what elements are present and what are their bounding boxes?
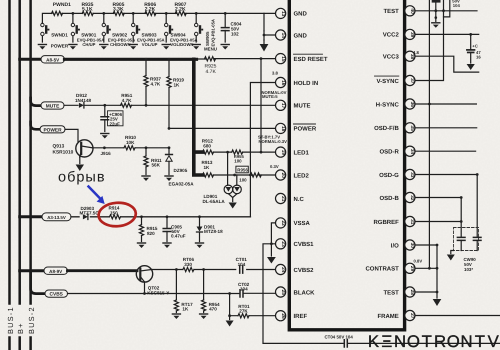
svg-text:16: 16 [280, 80, 286, 86]
pin 16 HOLD IN [272, 71, 318, 88]
diode D901 MTZ8-18 vertical [196, 215, 224, 248]
svg-text:103*: 103* [464, 267, 473, 272]
wire pin40 TEST net [415, 10, 477, 12]
svg-text:104: 104 [238, 262, 246, 267]
node CVBS stadium [45, 290, 68, 298]
wire pin34 OSD-R [415, 150, 476, 152]
wire RT01 branch [226, 292, 276, 326]
wire pin30 I/O [415, 244, 437, 246]
resistor R911 56K vertical [142, 146, 162, 181]
svg-text:33: 33 [409, 172, 415, 178]
svg-text:27: 27 [409, 313, 415, 319]
svg-text:KSC815-Y: KSC815-Y [147, 290, 169, 295]
svg-text:40: 40 [409, 8, 415, 14]
svg-text:EGA02-05A: EGA02-05A [169, 182, 195, 187]
svg-text:N: N [394, 332, 406, 350]
svg-text:CH/DOWN: CH/DOWN [110, 42, 130, 47]
svg-text:VOL/DOWN: VOL/DOWN [170, 42, 193, 47]
pin 35 OSD-F/B [374, 123, 415, 133]
wire pin36 H-SYNC [415, 103, 476, 105]
svg-text:DZ905: DZ905 [174, 168, 188, 173]
svg-text:PWND1: PWND1 [53, 2, 71, 8]
svg-text:LED1: LED1 [294, 149, 310, 156]
node MUTE stadium [41, 102, 64, 110]
svg-text:VCC2: VCC2 [383, 32, 400, 39]
pin 26 IREF [276, 311, 308, 321]
svg-text:36: 36 [409, 102, 415, 108]
wire A8-5V rail bold [65, 58, 197, 61]
resistor R905 3.3K [113, 11, 124, 15]
svg-text:28: 28 [409, 290, 415, 296]
resistor R925 4.7K [205, 57, 216, 61]
capacitor C906 22uF [101, 104, 123, 139]
svg-text:MTZ8-18: MTZ8-18 [204, 229, 223, 234]
pin 14 GND [276, 30, 308, 40]
pin 13 GND [276, 8, 308, 18]
svg-text:NORMAL:0.3V: NORMAL:0.3V [259, 139, 288, 144]
svg-text:J916: J916 [101, 151, 112, 156]
svg-text:RGBREF: RGBREF [373, 219, 399, 226]
svg-text:CVBS: CVBS [50, 292, 64, 298]
pin 40 TEST [383, 6, 415, 16]
svg-text:TEST: TEST [383, 8, 399, 15]
svg-text:18: 18 [280, 126, 286, 132]
svg-text:POWER: POWER [43, 127, 62, 133]
wire MUTE line to pin 17 [64, 104, 276, 106]
svg-text:OSD-F/B: OSD-F/B [374, 125, 399, 132]
resistor R919 1K vertical [167, 58, 185, 129]
svg-text:EVQ-PB1-05A: EVQ-PB1-05A [211, 19, 216, 46]
svg-text:104: 104 [240, 286, 248, 291]
svg-text:CT04 50V 104: CT04 50V 104 [325, 334, 354, 339]
svg-text:3.3K: 3.3K [113, 7, 124, 13]
svg-text:HOLD IN: HOLD IN [294, 80, 319, 87]
svg-text:KSR1010: KSR1010 [53, 149, 74, 155]
switch SW901 CH/UP [69, 13, 104, 49]
pin 15 ESD RESET [276, 54, 328, 64]
capacitor second bypass L-wire [444, 0, 450, 17]
svg-text:обрыв: обрыв [58, 170, 106, 186]
node POWER stadium [40, 126, 65, 134]
svg-text:27K: 27K [239, 308, 248, 313]
svg-text:25: 25 [280, 290, 286, 296]
svg-text:SW905: SW905 [205, 31, 210, 46]
ground pins 13/14 arrow [260, 44, 269, 52]
svg-text:4.7K: 4.7K [151, 81, 161, 86]
svg-text:OSD-B: OSD-B [379, 195, 399, 202]
wire pin27 FRAME [415, 315, 500, 317]
svg-text:100: 100 [234, 158, 242, 163]
svg-text:ESD RESET: ESD RESET [294, 56, 328, 63]
wire CVBS tap elbow from bus [31, 272, 45, 294]
svg-text:34: 34 [409, 149, 415, 155]
node A3-13.5V stadium [42, 213, 71, 221]
wire pin35 OSD-F/B [415, 127, 477, 129]
wire bus BUS-2 vertical [29, 0, 32, 350]
svg-text:20: 20 [280, 173, 286, 179]
pin 37 V-SYNC [375, 75, 416, 85]
wire bus BUS-1 vertical [8, 0, 11, 350]
pin 31 RGBREF [373, 216, 415, 226]
svg-text:OSD-G: OSD-G [379, 172, 399, 179]
resistor R956 100 boxed label [236, 166, 261, 182]
pin 32 OSD-B [379, 192, 415, 202]
svg-text:V-SYNC: V-SYNC [376, 78, 399, 85]
diode D2903 MTZ7.5C [83, 214, 88, 219]
svg-text:O: O [407, 332, 420, 350]
svg-text:330: 330 [184, 262, 192, 267]
svg-text:1K: 1K [204, 165, 211, 170]
watermark KENOTRONTV logo [368, 332, 500, 350]
wire pin31 RGBREF [415, 221, 461, 223]
svg-text:29: 29 [409, 266, 415, 272]
svg-text:R956: R956 [237, 168, 248, 173]
pin 25 BLACK [276, 287, 316, 297]
svg-text:2.2K: 2.2K [175, 7, 186, 13]
node A8-9V stadium [44, 267, 68, 274]
svg-text:IREF: IREF [294, 313, 308, 320]
svg-text:150: 150 [110, 210, 118, 215]
svg-text:4.7K: 4.7K [122, 98, 132, 103]
svg-text:15: 15 [280, 56, 286, 62]
svg-text:MUTE: MUTE [294, 103, 311, 110]
pin 17 MUTE [262, 90, 311, 111]
svg-text:30: 30 [409, 243, 415, 249]
svg-text:13: 13 [280, 11, 286, 17]
svg-text:31: 31 [409, 219, 415, 225]
resistor PWND1 ladder [52, 11, 63, 15]
wire A8-5V tap from bus [20, 58, 41, 61]
svg-text:Ξ: Ξ [381, 332, 392, 350]
node junction dots keypad rail [72, 12, 227, 15]
switch SW904 VOL/DOWN [162, 13, 197, 49]
capacitor CT04 104 [344, 340, 347, 347]
svg-text:O: O [447, 332, 460, 350]
svg-text:B+: B+ [16, 322, 25, 334]
switch SW902 CH/DOWN [100, 13, 135, 49]
capacitor CT01 104 [240, 266, 243, 273]
wire pin38 VCC3 step [415, 56, 479, 72]
switch SWND1 POWER [38, 23, 68, 50]
svg-text:37: 37 [409, 78, 415, 84]
svg-text:POWER: POWER [294, 126, 317, 133]
wire bus B+ vertical [18, 0, 21, 350]
svg-text:OSD-R: OSD-R [379, 149, 399, 156]
pin 22 VSSA [276, 218, 311, 228]
svg-text:SWND1: SWND1 [51, 33, 68, 38]
svg-text:A8-9V: A8-9V [49, 269, 63, 274]
wire pin23 CVBS1 down to bottom rail [263, 244, 500, 344]
pin 27 FRAME [377, 310, 415, 320]
svg-text:1K: 1K [182, 307, 189, 312]
resistor R906 2.2K [145, 11, 156, 15]
pin 20 LED2 [270, 164, 310, 180]
zener DZ905 EGA02-05A [165, 146, 194, 186]
wire POWER line to pin 18 [169, 127, 276, 129]
capacitor C904 102 [221, 13, 242, 49]
svg-text:17: 17 [280, 103, 286, 109]
pin 34 OSD-R [379, 146, 415, 156]
svg-text:39: 39 [409, 32, 415, 38]
pin 38 VCC3 [383, 50, 420, 61]
wire GND pins 13/14 common [264, 13, 276, 40]
svg-text:21: 21 [280, 196, 286, 202]
svg-text:Q913: Q913 [53, 143, 65, 149]
svg-text:TEST: TEST [383, 289, 399, 296]
svg-text:CVBS2: CVBS2 [294, 267, 315, 274]
wire CVBS line to pin 25 [68, 292, 277, 294]
op-amp U1 IC body TV-microcontroller [289, 0, 404, 330]
svg-text:2.2K: 2.2K [145, 7, 156, 13]
svg-text:A8-5V: A8-5V [46, 58, 60, 63]
pin 33 OSD-G [379, 169, 415, 179]
svg-text:N: N [461, 332, 473, 350]
svg-text:26: 26 [280, 313, 286, 319]
svg-text:14: 14 [280, 33, 286, 39]
svg-text:470: 470 [209, 307, 217, 312]
switch SW905 MENU [192, 13, 217, 51]
svg-text:BUS-2: BUS-2 [27, 306, 36, 334]
diode D912 1N4148 [79, 103, 84, 108]
wire A8-5V thin to R925 [197, 58, 276, 60]
svg-text:DL-65ALA: DL-65ALA [203, 199, 226, 204]
svg-text:5.1K: 5.1K [82, 7, 93, 13]
switch SW903 VOL/UP [129, 13, 164, 49]
svg-text:23: 23 [280, 241, 286, 247]
capacitor C905 0.47uF [163, 215, 186, 248]
wire POWER tap elbow from bus [31, 122, 40, 129]
svg-text:N.C: N.C [294, 196, 305, 203]
svg-text:GND: GND [294, 11, 308, 18]
resistor R951 4.7K [121, 103, 132, 107]
svg-text:MTZ7.5C: MTZ7.5C [80, 210, 100, 215]
svg-text:1K: 1K [174, 82, 181, 87]
svg-text:680: 680 [203, 143, 211, 148]
svg-text:1N4148: 1N4148 [75, 98, 92, 103]
svg-text:4.7K: 4.7K [206, 69, 217, 75]
wire LED1 line to pin 19 [213, 151, 276, 153]
wire pin28 TEST to ground [415, 245, 437, 298]
transistor QT02 KSC815-Y [136, 266, 169, 296]
svg-text:R: R [434, 332, 446, 350]
svg-text:0.47uF: 0.47uF [171, 234, 186, 239]
wire LED2 line to pin 20 [213, 174, 276, 176]
resistor R910 10K [124, 146, 135, 150]
svg-text:POWER: POWER [51, 44, 69, 49]
wire pin15 node to LED1 line vertical [260, 57, 263, 60]
pin 29 CONTRAST [365, 258, 422, 273]
svg-text:VSSA: VSSA [294, 220, 311, 227]
svg-text:104: 104 [453, 3, 461, 8]
pin 21 N.C [276, 193, 305, 203]
svg-text:T: T [475, 332, 485, 350]
resistor R954 470 vertical [200, 268, 220, 319]
capacitor network CW90 dashed box [447, 228, 481, 273]
wire pin39 VCC2 net [415, 33, 479, 35]
svg-text:10K: 10K [126, 140, 135, 145]
scan grain [0, 0, 1, 1]
svg-text:102: 102 [231, 32, 239, 37]
wire bold feed from A8-5V rail down to LED resistors [194, 59, 203, 175]
resistor RT01 27K [238, 314, 249, 318]
svg-text:I/O: I/O [391, 242, 399, 249]
svg-text:MUTE:5: MUTE:5 [262, 94, 278, 99]
svg-text:V: V [488, 332, 500, 350]
capacitor bypass C at top right [432, 0, 461, 28]
svg-text:H-SYNC: H-SYNC [376, 101, 400, 108]
resistor R914 150 [110, 215, 121, 219]
svg-text:4.8: 4.8 [413, 50, 419, 55]
svg-text:35: 35 [409, 125, 415, 131]
resistor R955 100 [232, 150, 243, 154]
svg-text:VCC3: VCC3 [383, 54, 400, 61]
transistor Q913 KSR1010 [53, 140, 94, 171]
svg-text:22uF: 22uF [110, 121, 121, 126]
pin 39 VCC2 [383, 29, 415, 39]
svg-text:22: 22 [280, 221, 286, 227]
svg-text:+C: +C [472, 43, 477, 48]
pin 36 H-SYNC [376, 99, 415, 109]
resistor R915 820 vertical [138, 215, 158, 248]
svg-text:K: K [368, 332, 379, 350]
LED LD901 DL-65ALA dual [203, 151, 242, 209]
svg-text:CONTRAST: CONTRAST [365, 266, 399, 273]
wire A3-13.5V tap from bus [20, 215, 42, 218]
svg-text:T: T [422, 332, 432, 350]
node A8-5V stadium [41, 56, 65, 63]
wire pin29 CONTRAST [415, 267, 437, 269]
wire A3-13.5V line [71, 216, 250, 218]
pin 24 CVBS2 [276, 264, 315, 274]
resistor RT06 330 [183, 267, 194, 271]
resistor R912 680 [203, 150, 214, 154]
wire MUTE tap elbow from bus [31, 98, 41, 106]
svg-text:BLACK: BLACK [294, 289, 316, 296]
svg-text:MUTE: MUTE [46, 104, 60, 110]
resistor R937 4.7K vertical [144, 58, 162, 107]
resistor R907 2.2K [175, 11, 186, 15]
wire pin16 HOLD IN vertical to A3 line [250, 83, 275, 217]
svg-text:MENU: MENU [204, 47, 217, 52]
pin 19 LED1 [276, 147, 310, 157]
pin 23 CVBS1 [276, 239, 315, 249]
wire keypad rail [42, 13, 264, 30]
svg-text:CH/UP: CH/UP [82, 42, 95, 47]
svg-text:CVBS1: CVBS1 [294, 241, 315, 248]
svg-text:VOL/UP: VOL/UP [142, 42, 158, 47]
svg-text:GND: GND [294, 32, 308, 39]
wire pin37 V-SYNC up [415, 11, 444, 81]
wire long vertical feed right side [428, 0, 430, 268]
resistor R935 5.1K [82, 11, 93, 15]
svg-text:FRAME: FRAME [377, 313, 398, 320]
svg-text:19: 19 [280, 150, 286, 156]
svg-text:LED2: LED2 [294, 172, 310, 179]
svg-text:820: 820 [147, 231, 155, 236]
pin 28 TEST [383, 287, 415, 297]
wire A8-9V tap from bus [20, 269, 44, 272]
pin 30 I/O [391, 240, 415, 250]
resistor RT17 1K vertical [172, 268, 193, 319]
svg-text:A3-13.5V: A3-13.5V [47, 215, 66, 220]
svg-text:3.8: 3.8 [272, 71, 278, 76]
capacitor electrolytic on VCC2 [467, 33, 482, 70]
wire pin33 OSD-G down to CW90 [415, 175, 477, 237]
resistor R913 1K [203, 173, 214, 177]
wire POWER stadium to Q913 base [65, 129, 78, 141]
svg-text:16: 16 [476, 55, 481, 60]
wire pin22 VSSA to ground [267, 223, 276, 264]
wire pin32 OSD-B down to CW90 [415, 198, 461, 237]
annotation red ellipse around R914 [98, 202, 137, 228]
wire QT02 collector line to pin 24 [152, 269, 276, 271]
svg-text:32: 32 [409, 195, 415, 201]
pin 18 POWER [258, 123, 317, 144]
wire A8-9V to QT02 base [68, 269, 138, 272]
annotation blue arrow [89, 187, 101, 199]
svg-text:56K: 56K [152, 163, 161, 168]
wire Q913 collector line [93, 147, 169, 149]
capacitor CT02 104 [240, 290, 243, 297]
node J916 [103, 146, 106, 149]
svg-text:100: 100 [239, 177, 247, 182]
svg-text:24: 24 [280, 267, 286, 273]
svg-text:0.3V: 0.3V [270, 164, 279, 169]
svg-text:BUS-1: BUS-1 [6, 306, 15, 334]
svg-text:0.8V: 0.8V [414, 258, 423, 263]
